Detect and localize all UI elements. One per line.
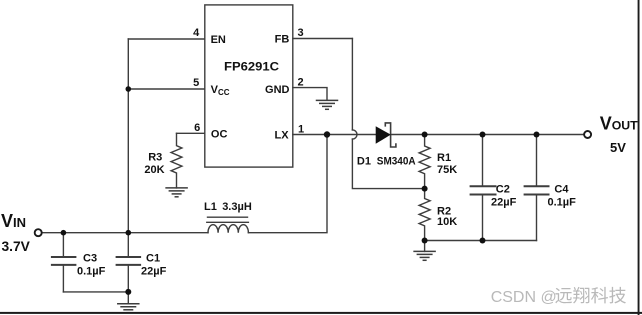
wire bottom rail R2 C2 C4 [425,240,537,242]
node junction dot Vcc rail [126,86,132,92]
node junction dot FB divider [422,186,428,192]
svg-text:FP6291C: FP6291C [224,60,279,74]
svg-text:22µF: 22µF [491,197,517,209]
wire R2 ground stub [424,241,426,252]
svg-text:3: 3 [298,27,304,39]
svg-text:C1: C1 [146,253,160,265]
node junction dot VIN rail at C3 [61,230,67,236]
node junction dot C2 top [480,132,486,138]
svg-text:CSDN @: CSDN @ [491,289,557,306]
resistor R3 [171,133,182,188]
svg-text:LX: LX [275,129,290,141]
svg-text:3.3µH: 3.3µH [222,201,252,213]
capacitor C4 leads [536,135,538,186]
svg-text:22µF: 22µF [141,266,167,278]
node junction dot C1 bottom [125,289,131,295]
svg-text:2: 2 [298,77,304,89]
ground at GND pin [317,100,338,109]
svg-text:VOUT: VOUT [600,113,638,133]
IC U1 FP6291C body [205,5,293,167]
capacitor C1 plates [117,257,141,265]
svg-text:5V: 5V [610,140,626,155]
border right edge [638,0,640,315]
capacitor C1 leads [127,233,129,256]
wire C3 bottom to C1 bottom [63,291,128,293]
svg-text:C3: C3 [83,253,97,265]
wire FB pin3 [293,38,353,40]
svg-text:C4: C4 [554,183,569,195]
wire LX to diode anode [358,134,376,136]
svg-text:4: 4 [193,27,200,39]
svg-text:6: 6 [194,122,200,134]
inductor L1 coil [208,225,248,233]
svg-text:0.1µF: 0.1µF [548,197,577,209]
wire GND pin2 [293,88,327,101]
resistor R1 [419,135,430,189]
diode D1 cathode schottky bar [385,123,396,147]
resistor R2 [419,189,430,241]
wire LX pin1 [293,134,356,136]
wire diode cathode to VOUT [391,134,584,136]
diode D1 triangle [376,127,390,143]
wire hop over LX line [352,130,357,139]
svg-text:FB: FB [275,33,290,45]
VOUT terminal [584,131,591,138]
ground below R2 [414,251,435,260]
svg-text:VIN: VIN [1,211,26,231]
svg-text:20K: 20K [144,164,164,176]
svg-text:R3: R3 [148,151,162,163]
wire left rail x=128.3 [127,39,129,233]
svg-text:R1: R1 [437,152,451,164]
wire EN pin4 to left rail [128,38,205,40]
wire Vcc pin5 [128,88,205,90]
node junction dot C4 top [534,132,540,138]
svg-text:EN: EN [211,34,226,46]
capacitor C3 plates [52,257,76,265]
node junction dot C2 bottom [480,238,486,244]
svg-text:5: 5 [193,77,199,89]
border bottom edge [0,312,642,314]
watermark CSDN @yuanxiang keji [491,287,626,306]
svg-text:75K: 75K [437,164,457,176]
ground below C1 [118,304,139,313]
svg-text:D1: D1 [357,156,371,168]
wire LX junction down to inductor [248,135,327,233]
svg-text:L1: L1 [204,201,217,213]
wire C1 bottom stub to ground [127,292,129,304]
svg-text:SM340A: SM340A [377,156,416,168]
node junction dot R2 bottom [422,238,428,244]
svg-text:10K: 10K [437,216,457,228]
node junction dot VIN rail at C1 [126,230,132,236]
inductor L1 core bars [208,216,248,218]
svg-text:C2: C2 [496,183,510,195]
node junction dot LX [324,131,330,137]
VIN terminal [35,229,42,236]
svg-text:0.1µF: 0.1µF [77,266,106,278]
capacitor C4 plates [525,186,549,194]
wire FB vertical lower to divider [352,139,424,189]
svg-text:OC: OC [211,129,228,141]
wire FB vertical upper [351,39,353,130]
svg-text:GND: GND [265,84,290,96]
svg-text:3.7V: 3.7V [2,239,31,254]
capacitor C3 leads [62,233,64,256]
capacitor C2 plates [471,186,496,194]
wire OC pin6 [177,132,205,134]
capacitor C2 leads [482,135,484,186]
ground below R3 [166,188,187,197]
node junction dot R1 top [422,132,428,138]
svg-text:1: 1 [298,123,304,135]
wire VIN to inductor [43,232,208,234]
